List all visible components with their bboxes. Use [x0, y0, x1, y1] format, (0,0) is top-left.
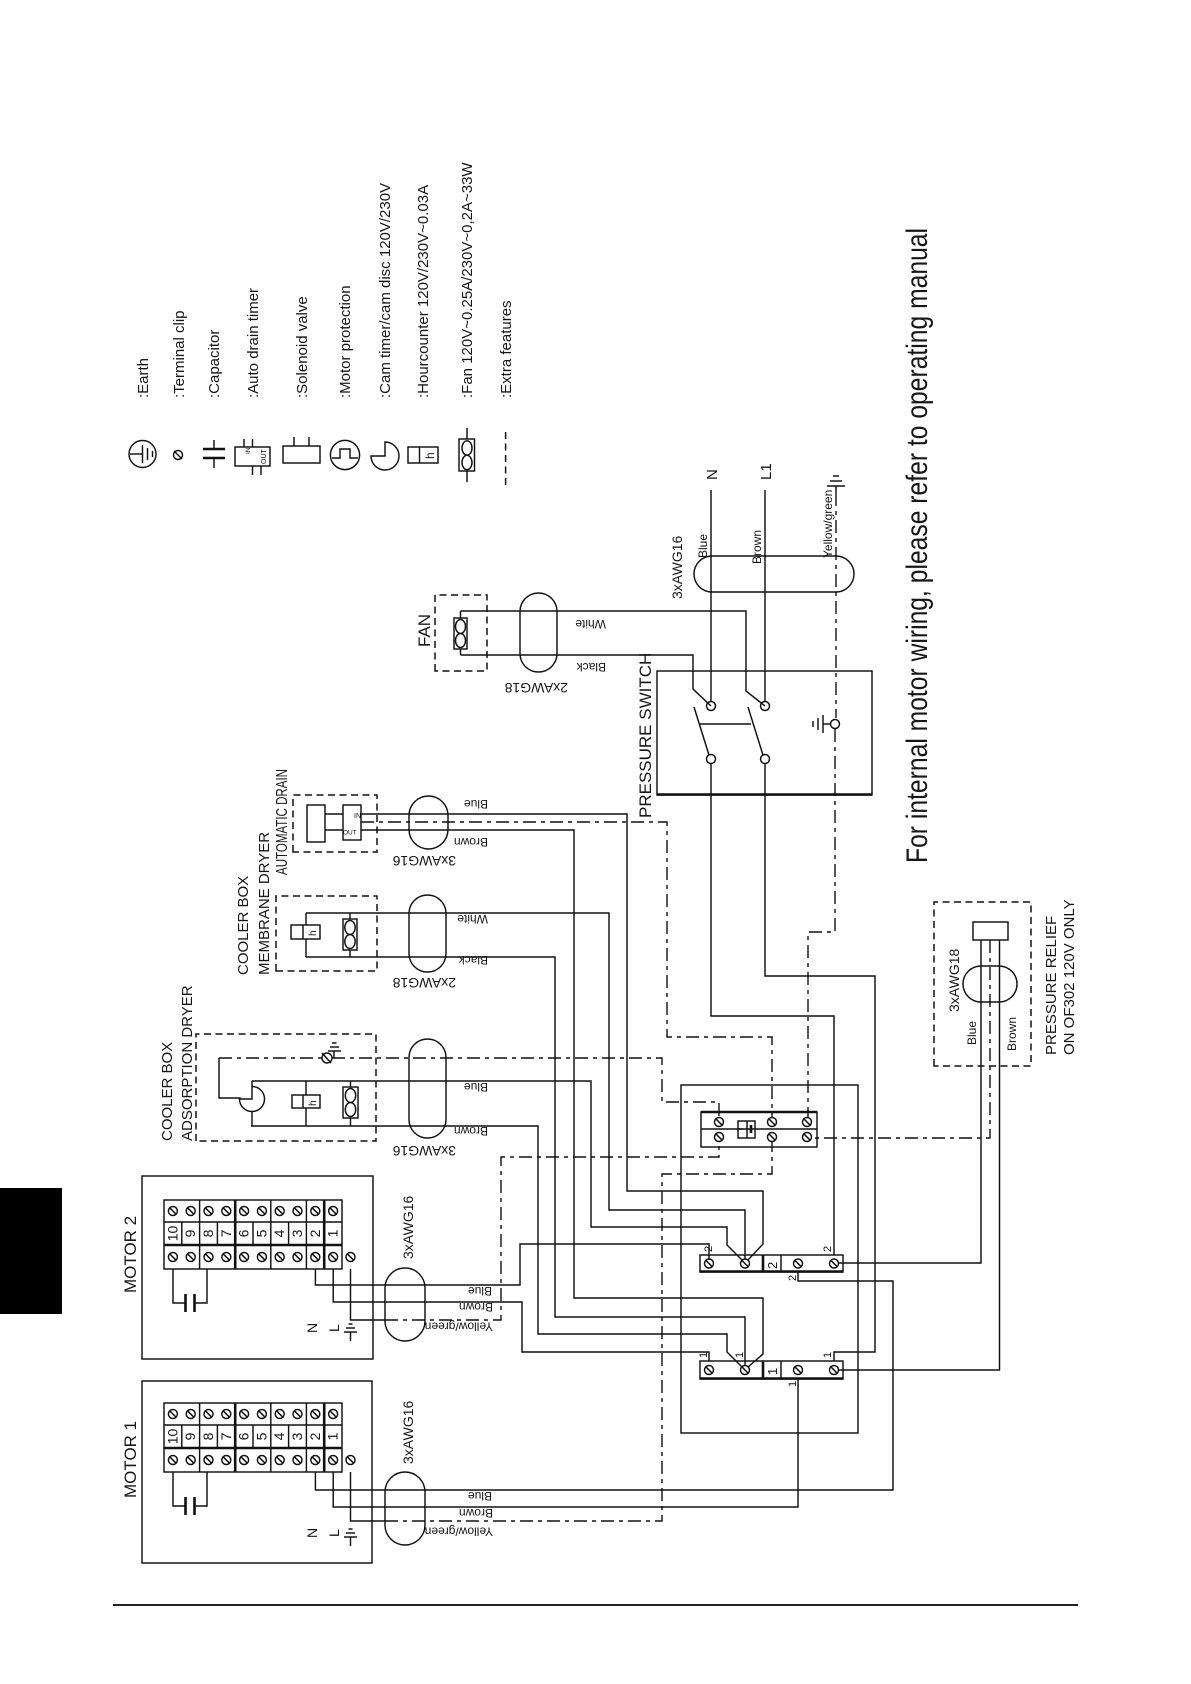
- svg-text:Blue: Blue: [468, 1284, 492, 1298]
- svg-text:5: 5: [253, 1432, 269, 1440]
- svg-text:White: White: [457, 912, 488, 926]
- wire motor1 brown: [333, 1379, 798, 1507]
- pressure switch earth symbol: [813, 715, 830, 733]
- cable oval 3xAWG16 auto drain: [409, 796, 448, 849]
- block fuse link: [738, 1121, 755, 1138]
- membrane fan: [343, 913, 357, 957]
- svg-text:FAN: FAN: [415, 614, 434, 647]
- svg-text:Blue: Blue: [464, 1080, 488, 1094]
- wire yellow/green mains: [835, 493, 837, 718]
- wire motor2 yellow/green solid part: [351, 1269, 386, 1320]
- cable oval 3xAWG16 motor 1: [385, 1472, 425, 1545]
- svg-text::Extra features: :Extra features: [498, 300, 515, 398]
- svg-text:8: 8: [200, 1229, 216, 1237]
- auto drain timer box: [343, 805, 361, 840]
- legend: motor protection symbol: [330, 440, 359, 469]
- svg-text:Black: Black: [458, 953, 488, 967]
- motor 2 terminal strip: [164, 1200, 355, 1269]
- svg-text:OUT: OUT: [261, 449, 268, 465]
- earth clip adsorption: [322, 1053, 332, 1063]
- COOLER BOX ADSORPTION DRYER label: [159, 985, 196, 1141]
- svg-text:L: L: [326, 1529, 342, 1537]
- pressure relief solenoid: [973, 922, 1008, 940]
- contact N right: [707, 702, 716, 711]
- legend: fan symbol: [459, 428, 475, 482]
- switch blade N: [694, 707, 709, 755]
- index tab (black): [0, 1188, 62, 1314]
- adsorption dryer dashed box: [196, 1034, 376, 1141]
- svg-text:MOTOR 1: MOTOR 1: [121, 1421, 140, 1498]
- svg-text:White: White: [575, 617, 606, 631]
- svg-text::Motor protection: :Motor protection: [337, 285, 354, 398]
- svg-text:6: 6: [236, 1432, 252, 1440]
- rotated landscape drawing: [121, 162, 1078, 1563]
- motor 1 terminal strip: [164, 1403, 355, 1472]
- svg-text:3xAWG16: 3xAWG16: [393, 1143, 456, 1159]
- wire motor2 yellow/green dashed part: [385, 1142, 719, 1320]
- contact N left: [707, 755, 716, 764]
- pressure switch box: [657, 671, 872, 795]
- legend: hourcounter symbol: [408, 447, 438, 463]
- switch blade L1: [748, 707, 763, 755]
- svg-text:2: 2: [307, 1229, 323, 1237]
- svg-text:IN: IN: [245, 447, 252, 454]
- wire N route to strip2 screw4: [711, 764, 834, 1255]
- svg-text:L: L: [326, 1324, 342, 1332]
- svg-text:10: 10: [164, 1226, 180, 1242]
- wire adsorption earth to block: [332, 1058, 719, 1117]
- svg-text:1: 1: [787, 1381, 799, 1387]
- enclosure box around terminals: [681, 1085, 858, 1433]
- cable oval 3xAWG18 pressure relief: [963, 966, 1017, 1002]
- wire solenoid to timer a: [325, 813, 343, 815]
- svg-text:N: N: [704, 469, 721, 480]
- svg-text:2: 2: [307, 1432, 323, 1440]
- membrane dryer dashed box: [276, 896, 377, 971]
- terminal block TB: [701, 1112, 817, 1147]
- wire motor1 yellow/green dashed part: [385, 1142, 772, 1521]
- svg-text:9: 9: [182, 1229, 198, 1237]
- svg-text:PRESSURE SWITCH: PRESSURE SWITCH: [636, 653, 655, 818]
- terminal strip 1: [700, 1361, 843, 1379]
- motor 2 N L earth labels: [304, 1323, 357, 1341]
- strip 1 pin labels: [698, 1352, 834, 1387]
- cable oval 2xAWG18 fan: [520, 593, 557, 672]
- svg-text:L1: L1: [758, 463, 775, 480]
- svg-text:5: 5: [253, 1229, 269, 1237]
- svg-text::Fan 120V~0.25A/230V~0,2A~33W: :Fan 120V~0.25A/230V~0,2A~33W: [459, 162, 476, 398]
- svg-text:4: 4: [271, 1229, 287, 1237]
- pressure switch earth terminal: [831, 720, 840, 729]
- svg-text:OUT: OUT: [343, 830, 357, 837]
- legend: capacitor symbol: [203, 440, 225, 468]
- wire solenoid to timer b: [325, 829, 343, 831]
- svg-text:Blue: Blue: [696, 534, 710, 558]
- svg-text:3xAWG16: 3xAWG16: [669, 536, 685, 599]
- svg-text:N: N: [304, 1528, 320, 1538]
- svg-text::Hourcounter 120V/230V~0.03A: :Hourcounter 120V/230V~0.03A: [415, 185, 432, 398]
- wire auto drain brown: [361, 830, 763, 1367]
- svg-text:2: 2: [822, 1246, 834, 1252]
- svg-text:h: h: [308, 1100, 319, 1106]
- svg-text:Black: Black: [576, 660, 606, 674]
- svg-text:N: N: [304, 1323, 320, 1333]
- svg-text:MOTOR 2: MOTOR 2: [121, 1216, 140, 1293]
- svg-text:Yellow/green: Yellow/green: [425, 1320, 493, 1334]
- svg-text:9: 9: [182, 1432, 198, 1440]
- svg-text:1: 1: [325, 1432, 341, 1440]
- svg-text:1: 1: [734, 1352, 746, 1358]
- svg-text:3xAWG18: 3xAWG18: [946, 949, 962, 1012]
- PRESSURE RELIEF labels: [1043, 899, 1078, 1055]
- wire membrane white: [306, 913, 745, 1259]
- svg-text::Capacitor: :Capacitor: [206, 330, 223, 398]
- wire cam to earth clip: [219, 1058, 240, 1099]
- switch coupling bar: [700, 723, 751, 725]
- legend: auto drain timer symbol: [235, 439, 270, 475]
- motor 1 box: [142, 1381, 372, 1563]
- wire auto drain earth: [361, 822, 772, 1117]
- svg-text:3xAWG16: 3xAWG16: [393, 853, 456, 869]
- wire pressure relief brown: [838, 940, 1000, 1370]
- wire pressure relief earth: [812, 940, 990, 1138]
- COOLER BOX MEMBRANE DRYER label: [235, 832, 273, 975]
- footer rule: [113, 1604, 1078, 1606]
- svg-text:h: h: [423, 452, 437, 459]
- wire motor2 blue: [315, 1244, 709, 1285]
- svg-text:Brown: Brown: [459, 1506, 493, 1520]
- wire motor2 brown: [333, 1269, 709, 1361]
- svg-text:Yellow/green: Yellow/green: [821, 490, 835, 558]
- fan symbol: [454, 611, 467, 655]
- membrane hourcounter: [291, 913, 320, 957]
- svg-text:Yellow/green: Yellow/green: [425, 1525, 493, 1539]
- cable oval 3xAWG16 mains: [694, 556, 854, 592]
- wire N mains: [710, 490, 712, 701]
- svg-text:PRESSURE RELIEF: PRESSURE RELIEF: [1043, 916, 1060, 1055]
- motor 1 N L earth labels: [304, 1528, 357, 1546]
- automatic drain dashed box: [293, 795, 377, 852]
- svg-text:Blue: Blue: [464, 797, 488, 811]
- svg-text:Blue: Blue: [965, 1021, 979, 1045]
- adsorption fan: [343, 1081, 358, 1126]
- svg-text:3: 3: [289, 1229, 305, 1237]
- wire L1 mains: [764, 490, 766, 701]
- svg-text::Earth: :Earth: [135, 358, 152, 398]
- legend: earth symbol: [129, 441, 156, 468]
- mains earth symbol: [827, 476, 845, 493]
- legend: extra features dashed sample: [505, 430, 507, 485]
- svg-text:4: 4: [271, 1432, 287, 1440]
- svg-text:3xAWG16: 3xAWG16: [400, 1401, 416, 1464]
- svg-text:COOLER BOX: COOLER BOX: [159, 1042, 176, 1141]
- svg-text:h: h: [308, 930, 319, 936]
- wire PS earth to block screw3: [808, 729, 835, 1117]
- wire L1 route to strip1 screw4: [765, 764, 875, 1361]
- motor 2 box: [142, 1176, 373, 1359]
- wire pressure relief blue: [838, 940, 981, 1263]
- wire fan black: [461, 655, 712, 706]
- adsorption hourcounter: [292, 1081, 320, 1126]
- wire motor1 blue: [315, 1272, 893, 1490]
- svg-text:2: 2: [765, 1262, 780, 1269]
- svg-text:7: 7: [218, 1432, 234, 1440]
- cable oval 2xAWG18 membrane: [409, 895, 446, 972]
- wire membrane black: [306, 957, 745, 1365]
- svg-text:IN: IN: [354, 813, 361, 820]
- svg-text:10: 10: [164, 1429, 180, 1445]
- svg-text:For internal motor wiring, ple: For internal motor wiring, please refer …: [901, 228, 934, 863]
- svg-text:1: 1: [822, 1352, 834, 1358]
- PRESSURE RELIEF dashed box: [934, 902, 1031, 1066]
- solenoid valve auto drain: [307, 805, 325, 842]
- wire auto drain blue: [361, 814, 763, 1260]
- terminal strip 2: [700, 1255, 843, 1272]
- svg-text:COOLER BOX: COOLER BOX: [235, 876, 252, 975]
- svg-text:Brown: Brown: [454, 835, 488, 849]
- adsorption earth symbol: [328, 1043, 341, 1058]
- svg-text:7: 7: [218, 1229, 234, 1237]
- svg-text::Terminal clip: :Terminal clip: [171, 310, 188, 398]
- strip 2 pin labels: [703, 1246, 834, 1281]
- svg-text:1: 1: [765, 1368, 780, 1375]
- fan dashed box: [435, 595, 487, 671]
- svg-text:3: 3: [289, 1432, 305, 1440]
- svg-text::Solenoid valve: :Solenoid valve: [294, 296, 311, 398]
- svg-text:2xAWG18: 2xAWG18: [393, 975, 456, 991]
- legend: cam timer symbol: [371, 442, 399, 470]
- svg-text:Blue: Blue: [468, 1489, 492, 1503]
- svg-text:Brown: Brown: [1005, 1017, 1019, 1051]
- svg-text:MEMBRANE DRYER: MEMBRANE DRYER: [256, 832, 273, 975]
- svg-text::Cam timer/cam disc 120V/230V: :Cam timer/cam disc 120V/230V: [377, 183, 394, 398]
- svg-text:Brown: Brown: [750, 530, 764, 564]
- svg-text:2: 2: [787, 1275, 799, 1281]
- capacitor C motor 2: [173, 1269, 207, 1312]
- svg-text:6: 6: [236, 1229, 252, 1237]
- cable oval 3xAWG16 adsorption: [409, 1039, 446, 1138]
- svg-text:AUTOMATIC DRAIN: AUTOMATIC DRAIN: [274, 769, 291, 875]
- wire adsorption blue: [252, 1081, 742, 1260]
- wire fan white: [461, 611, 766, 706]
- svg-text:ADSORPTION DRYER: ADSORPTION DRYER: [179, 985, 196, 1141]
- cable oval 3xAWG16 motor 2: [385, 1268, 425, 1341]
- svg-text:1: 1: [698, 1352, 710, 1358]
- legend: solenoid valve symbol: [283, 437, 320, 463]
- legend: terminal clip symbol: [174, 451, 183, 460]
- wire adsorption earth: [219, 1057, 327, 1059]
- svg-text:ON OF302 120V ONLY: ON OF302 120V ONLY: [1061, 899, 1078, 1055]
- svg-text:1: 1: [325, 1229, 341, 1237]
- wire motor1 yellow/green solid part: [351, 1472, 386, 1521]
- svg-text:2xAWG18: 2xAWG18: [505, 680, 568, 696]
- svg-text:3xAWG16: 3xAWG16: [400, 1196, 416, 1259]
- svg-text:8: 8: [200, 1432, 216, 1440]
- capacitor C motor 1: [173, 1472, 207, 1515]
- contact L1 right: [761, 702, 770, 711]
- svg-text::Auto drain timer: :Auto drain timer: [245, 288, 262, 398]
- wire adsorption brown: [251, 1126, 742, 1367]
- contact L1 left: [761, 755, 770, 764]
- adsorption cam timer: [240, 1081, 265, 1126]
